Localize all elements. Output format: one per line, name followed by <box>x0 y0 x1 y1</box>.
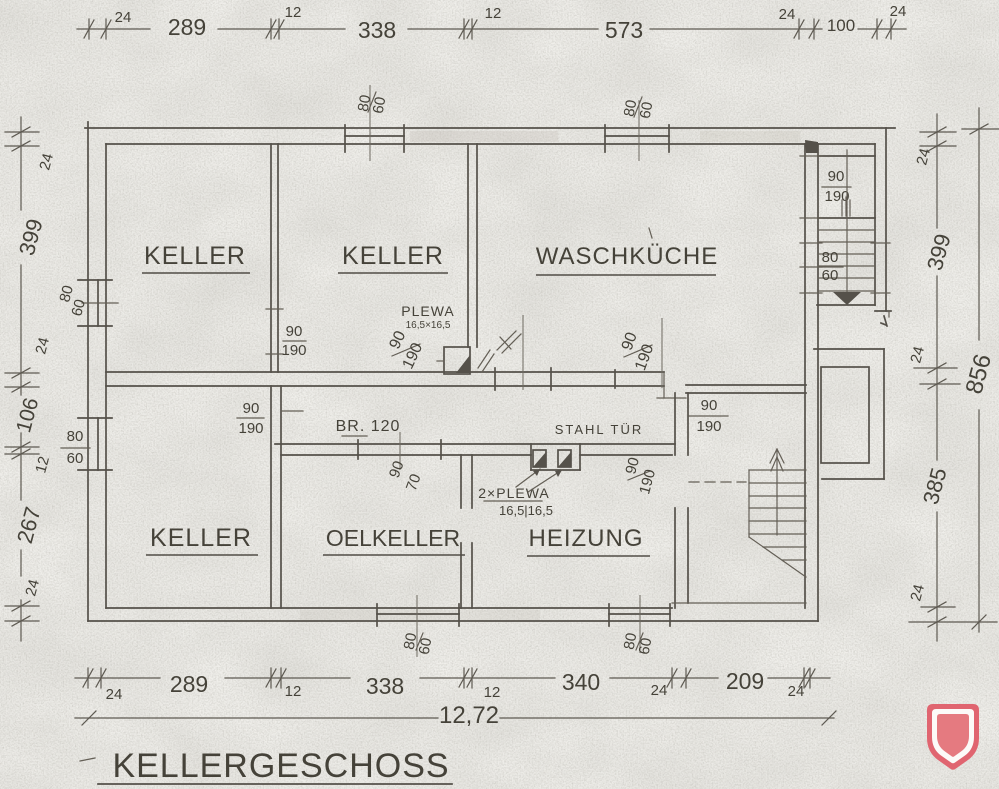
svg-text:80: 80 <box>822 249 839 266</box>
svg-text:KELLER: KELLER <box>144 242 246 270</box>
door centerline waschkueche <box>661 318 663 388</box>
svg-text:STAHL TÜR: STAHL TÜR <box>555 422 644 437</box>
stairwell wall wedge <box>805 140 818 153</box>
wall heizung right <box>675 393 688 608</box>
chimney block 1 <box>533 450 546 467</box>
title KELLERGESCHOSS <box>80 747 452 785</box>
svg-text:12: 12 <box>285 683 302 700</box>
door swing mark hash <box>497 331 521 353</box>
wall exterior bottom <box>88 608 818 621</box>
bay top line <box>814 348 884 350</box>
svg-text:60: 60 <box>67 450 84 467</box>
svg-text:90: 90 <box>286 323 303 340</box>
chimney block 2 <box>558 450 571 467</box>
svg-text:24: 24 <box>779 6 796 23</box>
wall partition keller2-waschkueche <box>468 144 477 347</box>
stairwell label 80/60 <box>818 249 843 284</box>
dimension chain top line <box>77 28 906 30</box>
stairs diagonal cut <box>749 537 806 577</box>
svg-text:573: 573 <box>605 17 643 43</box>
stairwell treads <box>818 230 875 291</box>
window label 80/60 D <box>621 632 656 656</box>
svg-text:60: 60 <box>636 637 656 656</box>
window label 80/60 left upper <box>56 284 89 319</box>
window label 80/60 B <box>621 97 657 120</box>
window oelkeller top wall <box>358 432 441 470</box>
svg-text:12: 12 <box>484 684 501 701</box>
wall stairhouse right lower <box>805 144 818 621</box>
wall partition oelkeller-heizung <box>461 455 472 608</box>
wall smudge top 2 <box>700 131 800 142</box>
bay inner rectangle <box>821 367 869 463</box>
stairwell left wall ticks <box>800 156 822 293</box>
logo shield <box>927 704 979 770</box>
room label OELKELLER <box>323 525 465 555</box>
svg-text:90: 90 <box>701 397 718 414</box>
svg-text:KELLER: KELLER <box>150 524 252 552</box>
door slashes keller2-waschkueche <box>478 350 494 372</box>
window label 80/60 left lower <box>61 428 90 467</box>
svg-text:16,5×16,5: 16,5×16,5 <box>406 320 451 331</box>
arrow plewa 1 <box>516 469 540 487</box>
svg-text:60: 60 <box>822 267 839 284</box>
label PLEWA keller2 <box>401 303 455 331</box>
stairs partial treads <box>763 547 806 560</box>
svg-text:338: 338 <box>366 673 404 699</box>
window bottom wall C <box>377 595 459 657</box>
stairwell landing lines <box>818 156 875 218</box>
svg-text:60: 60 <box>416 637 436 656</box>
window label 80/60 A <box>355 92 390 115</box>
dimension chain left line <box>20 117 22 641</box>
room label KELLER top-left <box>142 242 250 273</box>
label 2x PLEWA heizung <box>478 485 553 518</box>
dimension chain right inner line <box>936 114 938 641</box>
dashed landing line <box>689 481 746 483</box>
stairwell window right wall <box>871 243 890 293</box>
svg-text:24: 24 <box>788 683 805 700</box>
svg-text:190: 190 <box>238 420 263 437</box>
stairs lower left rail <box>748 470 750 537</box>
svg-text:WASCHKÜCHE: WASCHKÜCHE <box>536 243 718 270</box>
svg-text:340: 340 <box>562 669 600 695</box>
stairs lower treads <box>749 470 806 534</box>
stairs up walking line <box>770 449 784 535</box>
steel door recess <box>531 444 580 470</box>
svg-text:KELLER: KELLER <box>342 242 444 270</box>
svg-text:2×PLEWA: 2×PLEWA <box>478 485 549 501</box>
dim ticks bottom <box>83 668 815 688</box>
svg-text:PLEWA: PLEWA <box>401 303 455 319</box>
svg-text:24: 24 <box>890 3 907 20</box>
door label 90/190 keller3-oelkeller <box>237 400 264 437</box>
wall oelkeller-heizung top <box>275 444 675 455</box>
svg-text:338: 338 <box>358 17 396 43</box>
arrow plewa 2 <box>528 470 562 492</box>
svg-text:16,5|16,5: 16,5|16,5 <box>499 503 553 518</box>
svg-text:12: 12 <box>285 4 302 21</box>
window left wall lower <box>78 418 112 470</box>
window left wall upper <box>78 280 118 326</box>
door label 90/190 stairhall <box>689 397 728 435</box>
svg-text:289: 289 <box>170 671 208 697</box>
stairwell label 90/190 <box>822 168 851 205</box>
door label 90/190 chimney rotated <box>386 328 426 371</box>
svg-text:24: 24 <box>115 9 132 26</box>
svg-text:12: 12 <box>485 5 502 22</box>
svg-text:24: 24 <box>106 686 123 703</box>
window label 80/60 C <box>401 632 436 656</box>
dim ticks right inner <box>909 127 997 627</box>
wall smudge bottom <box>300 610 540 620</box>
window mid wall BR120 <box>495 315 615 390</box>
svg-text:OELKELLER: OELKELLER <box>326 525 460 551</box>
wall stairwell bottom step <box>817 305 891 317</box>
svg-text:190: 190 <box>281 342 306 359</box>
window bottom wall D <box>609 595 670 653</box>
svg-text:209: 209 <box>726 668 764 694</box>
wall exterior right upper <box>875 128 886 311</box>
svg-text:80: 80 <box>67 428 84 445</box>
svg-text:90: 90 <box>828 168 845 185</box>
room label KELLER top-middle <box>338 242 448 273</box>
svg-text:190: 190 <box>696 418 721 435</box>
dim ticks top <box>84 19 896 39</box>
stairwell walking line and down arrow <box>833 150 861 305</box>
stairhall floor line <box>672 602 806 604</box>
svg-text:KELLERGESCHOSS: KELLERGESCHOSS <box>112 747 449 785</box>
dimension chain bottom line <box>75 677 830 679</box>
svg-text:12,72: 12,72 <box>439 702 499 729</box>
wall exterior top <box>85 128 895 144</box>
dim ticks right outer <box>962 124 999 629</box>
bay bottom line <box>822 478 884 480</box>
window top wall A <box>345 85 404 161</box>
dimension chain right outer line <box>978 108 980 632</box>
bay right line <box>883 349 885 479</box>
wall partition keller3-oelkeller <box>271 386 303 608</box>
wall middle horizontal <box>106 372 806 398</box>
window label 90/70 oelkeller <box>386 459 425 493</box>
dimension total line bottom <box>75 711 836 725</box>
svg-text:HEIZUNG: HEIZUNG <box>529 525 644 552</box>
window top wall B <box>605 100 669 161</box>
door label 90/190 heizung rotated <box>622 456 659 497</box>
svg-text:BR. 120: BR. 120 <box>336 418 401 435</box>
door label 90/190 waschkueche rotated <box>619 330 658 373</box>
dim ticks left <box>5 127 39 626</box>
svg-text:24: 24 <box>651 682 668 699</box>
wall smudge top 1 <box>410 131 558 142</box>
svg-text:60: 60 <box>370 96 390 115</box>
svg-text:289: 289 <box>168 14 206 40</box>
room label HEIZUNG <box>527 525 650 556</box>
svg-text:90: 90 <box>243 400 260 417</box>
label BR 120 <box>336 418 401 436</box>
mark above waschkueche <box>649 228 652 238</box>
door label 90/190 keller1-keller2 <box>281 323 306 359</box>
room label KELLER bottom-left <box>146 524 258 555</box>
svg-text:100: 100 <box>827 16 855 35</box>
wall exterior left <box>88 122 106 621</box>
mark tick below stairwell <box>881 316 887 326</box>
chimney plewa keller2 <box>437 347 470 374</box>
wall partition keller1-keller2 <box>266 144 283 372</box>
room label WASCHKUECHE <box>536 243 718 275</box>
